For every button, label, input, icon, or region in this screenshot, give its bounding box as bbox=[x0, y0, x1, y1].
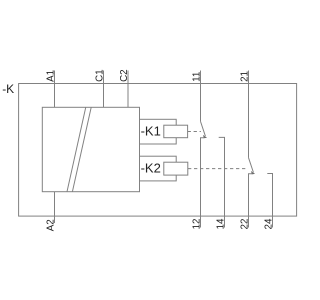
svg-text:C2: C2 bbox=[119, 69, 130, 82]
svg-text:C1: C1 bbox=[95, 69, 106, 82]
svg-text:14: 14 bbox=[216, 218, 227, 229]
svg-text:-K2: -K2 bbox=[141, 160, 161, 175]
svg-text:24: 24 bbox=[264, 218, 275, 229]
svg-text:A1: A1 bbox=[46, 70, 57, 82]
svg-text:21: 21 bbox=[240, 71, 251, 82]
svg-text:12: 12 bbox=[192, 219, 203, 230]
svg-text:-K: -K bbox=[2, 82, 14, 96]
svg-text:22: 22 bbox=[240, 219, 251, 230]
svg-text:11: 11 bbox=[192, 72, 203, 82]
svg-text:-K1: -K1 bbox=[141, 123, 161, 138]
svg-text:A2: A2 bbox=[46, 219, 57, 231]
